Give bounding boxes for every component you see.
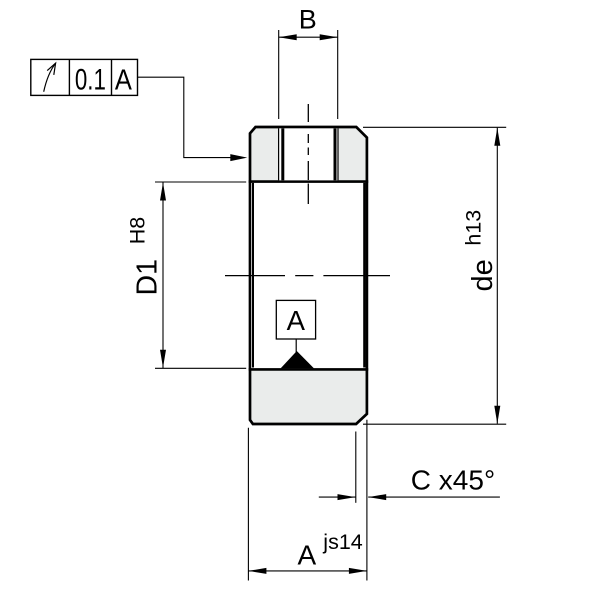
slot left thick edge — [281, 128, 284, 180]
svg-text:de: de — [467, 259, 499, 291]
datum A box — [276, 300, 315, 339]
dimension B extension line left — [278, 30, 280, 119]
svg-text:B: B — [299, 5, 317, 35]
dimension A arrow left — [248, 568, 266, 574]
dimension de arrow down — [494, 406, 500, 424]
left face inner edge — [252, 183, 254, 368]
svg-text:A: A — [115, 64, 132, 96]
dimension B arrow right — [320, 34, 338, 40]
slot cavity in top band — [279, 128, 337, 180]
right face inner edge — [363, 183, 365, 368]
dimension B arrow left — [279, 34, 297, 40]
svg-text:D1: D1 — [132, 259, 164, 295]
dimension D1 line — [162, 183, 164, 369]
svg-text:A: A — [287, 305, 306, 336]
leader arrow — [230, 154, 247, 161]
dimension de line — [496, 128, 498, 424]
dimension C arrow left — [338, 494, 356, 500]
part centerline — [225, 275, 390, 277]
slot left thin edge — [278, 128, 280, 180]
dimension de extension line bottom — [363, 423, 506, 425]
svg-text:0.1: 0.1 — [75, 63, 106, 96]
dimension C extension line left — [355, 432, 357, 503]
dimension D1 arrow down — [160, 350, 166, 368]
bore bottom edge — [249, 368, 369, 371]
svg-text:H8: H8 — [126, 217, 150, 245]
leader line from frame to part — [138, 77, 232, 157]
svg-text:js14: js14 — [322, 530, 362, 554]
slot right thick edge — [334, 128, 337, 180]
part body section outline — [250, 127, 367, 424]
dimension B extension line right — [337, 30, 339, 119]
runout symbol — [44, 63, 56, 92]
dimension C line right segment — [368, 496, 500, 498]
datum stem — [295, 339, 297, 353]
dimension C arrow right — [368, 494, 386, 500]
bore top edge — [249, 180, 369, 183]
dimension C line left segment — [319, 496, 356, 498]
dimension de arrow up — [494, 128, 500, 146]
svg-text:C x45°: C x45° — [411, 464, 495, 495]
dimension D1 extension line top — [155, 181, 246, 183]
feature control frame box — [31, 59, 138, 95]
dimension de extension line top — [363, 126, 506, 128]
svg-text:h13: h13 — [462, 210, 486, 246]
dimension A line — [248, 570, 367, 572]
dimension A arrow right — [349, 568, 367, 574]
svg-text:A: A — [297, 540, 316, 571]
slot centerline — [307, 104, 309, 204]
bore cavity — [251, 183, 365, 368]
dimension C extension line right — [366, 420, 368, 581]
dimension D1 arrow up — [160, 183, 166, 201]
slot right thin edge — [337, 128, 339, 180]
dimension A extension line left — [247, 428, 249, 581]
dimension D1 extension line bottom — [155, 367, 246, 369]
dimension B line — [279, 36, 338, 38]
datum triangle — [281, 351, 314, 368]
